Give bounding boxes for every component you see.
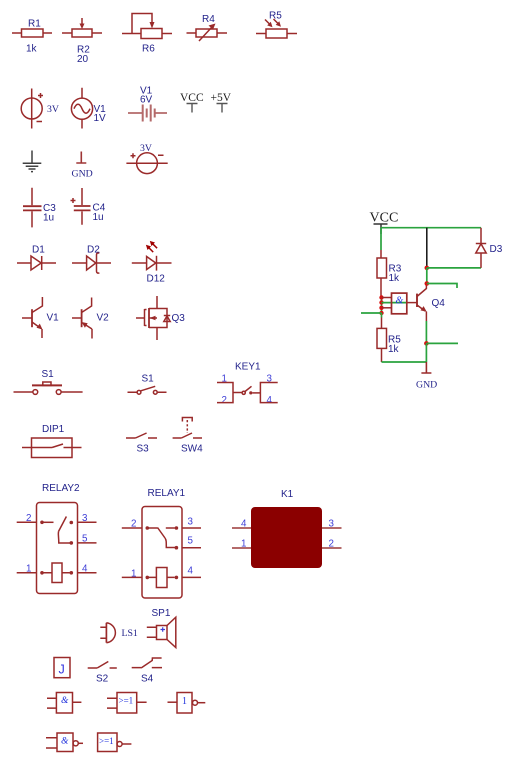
svg-text:1: 1: [26, 564, 31, 575]
diode D1: [17, 245, 56, 271]
transistor Q4: [417, 284, 445, 322]
junction dot collector: [425, 281, 430, 286]
svg-text:6V: 6V: [140, 95, 153, 106]
svg-text:3V: 3V: [47, 104, 59, 115]
svg-text:2: 2: [26, 513, 31, 524]
wire green collector stub: [427, 284, 457, 289]
switch S4: [132, 658, 162, 685]
switch S1: [128, 374, 167, 395]
svg-text:1k: 1k: [388, 344, 400, 355]
svg-text:R4: R4: [202, 14, 215, 25]
DC source 3V horizontal: [126, 143, 167, 174]
svg-text:1: 1: [131, 569, 136, 580]
AND gate: [47, 693, 81, 714]
svg-text:Q4: Q4: [432, 298, 446, 309]
resistor R1: [12, 19, 52, 55]
svg-text:2: 2: [329, 539, 334, 550]
svg-text:V2: V2: [97, 313, 110, 324]
svg-text:KEY1: KEY1: [235, 362, 261, 373]
battery V1 6V: [128, 86, 167, 122]
svg-text:K1: K1: [281, 489, 294, 500]
svg-text:4: 4: [82, 564, 88, 575]
svg-text:4: 4: [241, 519, 247, 530]
NAND gate: [46, 733, 83, 752]
svg-text:RELAY2: RELAY2: [42, 483, 80, 494]
wire input green 2: [382, 302, 407, 304]
svg-text:3: 3: [82, 513, 88, 524]
rheostat R6: [122, 14, 172, 55]
svg-text:&: &: [396, 296, 404, 307]
resistor R5 (circuit): [377, 313, 401, 362]
svg-text:D12: D12: [147, 274, 166, 285]
svg-text:&: &: [61, 737, 69, 747]
wire green VCC drop: [380, 228, 382, 250]
wire input red 1: [382, 297, 392, 299]
svg-text:1u: 1u: [43, 213, 54, 224]
diode D3: [476, 228, 503, 268]
pushbutton S1: [14, 369, 83, 394]
resistor R3: [377, 250, 402, 296]
wire input green long: [361, 312, 382, 314]
svg-text:D3: D3: [490, 244, 503, 255]
net flag VCC: [180, 92, 204, 113]
svg-text:S1: S1: [142, 374, 155, 385]
wire black vertical: [426, 228, 428, 266]
capacitor C4 polarized: [71, 188, 106, 225]
wire input red 3: [382, 307, 392, 309]
ground GND flag: [72, 152, 93, 180]
relay K1: [232, 489, 342, 568]
zener diode D2: [72, 245, 111, 274]
svg-text:1V: 1V: [94, 113, 107, 124]
svg-text:+5V: +5V: [211, 92, 232, 104]
wire green emitter: [425, 321, 427, 343]
capacitor C3: [23, 188, 56, 228]
svg-text:R1: R1: [28, 19, 41, 30]
svg-text:>=1: >=1: [99, 736, 114, 746]
svg-text:1k: 1k: [389, 273, 401, 284]
junction dots input column: [379, 295, 383, 315]
DC source 3V: [21, 89, 59, 129]
net flag +5V: [211, 92, 232, 113]
AND gate U1: [392, 293, 407, 314]
svg-text:3: 3: [188, 517, 194, 528]
junction dot collector node: [425, 266, 430, 271]
DIP switch DIP1: [22, 424, 82, 458]
svg-text:1k: 1k: [26, 44, 38, 55]
relay RELAY2: [17, 483, 97, 594]
svg-text:4: 4: [267, 395, 273, 406]
earth ground: [23, 151, 42, 172]
potentiometer R2: [62, 18, 102, 65]
wire green to ground: [382, 343, 427, 362]
AC source V1: [71, 88, 106, 129]
svg-text:S1: S1: [42, 369, 55, 380]
svg-text:1u: 1u: [93, 212, 104, 223]
svg-text:SP1: SP1: [152, 608, 171, 619]
wire green D3 bottom: [427, 267, 481, 269]
wire green top: [381, 227, 481, 229]
svg-text:R5: R5: [269, 11, 282, 22]
variable resistor R4: [187, 14, 228, 41]
net flag VCC (circuit): [370, 211, 399, 235]
transistor V1 NPN: [22, 297, 59, 338]
switch S3: [126, 433, 157, 455]
svg-text:>=1: >=1: [119, 696, 134, 706]
jumper J: [54, 658, 70, 678]
svg-text:D1: D1: [32, 245, 45, 256]
svg-text:S3: S3: [137, 444, 150, 455]
svg-text:VCC: VCC: [180, 92, 204, 104]
svg-text:S2: S2: [96, 674, 109, 685]
svg-text:4: 4: [188, 566, 194, 577]
svg-text:1: 1: [182, 696, 187, 707]
svg-text:20: 20: [77, 54, 89, 65]
svg-text:RELAY1: RELAY1: [148, 488, 186, 499]
svg-text:SW4: SW4: [181, 444, 203, 455]
buzzer LS1: [100, 623, 138, 643]
wire base red: [407, 302, 417, 304]
transistor V2 PNP: [72, 298, 109, 339]
svg-text:LS1: LS1: [122, 628, 138, 639]
svg-text:Q3: Q3: [172, 313, 186, 324]
svg-text:&: &: [61, 696, 69, 706]
svg-text:5: 5: [82, 534, 88, 545]
svg-text:2: 2: [131, 519, 136, 530]
svg-text:GND: GND: [72, 169, 93, 180]
switch S2: [88, 662, 117, 685]
speaker SP1: [147, 608, 176, 648]
switch SW4: [173, 418, 204, 455]
NOR gate: [98, 733, 132, 752]
NOT gate: [168, 693, 206, 714]
ground GND (circuit): [416, 362, 437, 391]
svg-text:GND: GND: [416, 380, 437, 391]
wire green emitter stub: [426, 342, 458, 344]
wire green node link: [426, 268, 428, 284]
MOSFET Q3: [136, 296, 185, 340]
svg-text:3: 3: [329, 519, 335, 530]
OR gate: [107, 693, 147, 714]
svg-text:D2: D2: [87, 245, 100, 256]
svg-text:2: 2: [222, 395, 227, 406]
photoresistor R5: [256, 11, 297, 39]
svg-text:S4: S4: [141, 674, 154, 685]
svg-text:R6: R6: [142, 44, 155, 55]
svg-text:J: J: [59, 663, 65, 677]
switch KEY1: [217, 362, 278, 407]
relay RELAY1: [122, 488, 201, 598]
svg-text:DIP1: DIP1: [42, 424, 65, 435]
svg-text:1: 1: [241, 539, 246, 550]
svg-text:V1: V1: [47, 313, 60, 324]
junction dot emitter node: [424, 341, 429, 346]
svg-text:5: 5: [188, 536, 194, 547]
LED D12: [132, 241, 172, 285]
